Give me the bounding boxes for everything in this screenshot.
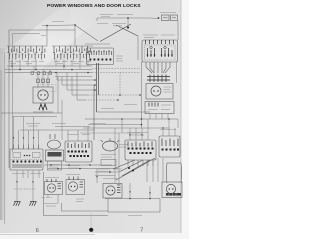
wire: drop x138 [137, 36, 139, 60]
harness box inner [13, 34, 41, 153]
label: S2 below [66, 166, 80, 169]
wire: horizontal into node A [42, 24, 75, 27]
rail junction boxes [31, 72, 52, 75]
wire: right drop from breaker [177, 21, 179, 41]
lock actuator A1 (x45-64) [48, 134, 61, 149]
connector row under K1 [147, 75, 170, 83]
wire: switch feed horizontal [20, 129, 95, 131]
ground G1 [13, 202, 20, 206]
K1 contact group 2 [162, 46, 173, 57]
wire: M2/M3 drops [48, 169, 97, 204]
harness box left outline [9, 30, 75, 168]
svg-text:6: 6 [36, 228, 39, 234]
wire: main feed horizontal [97, 17, 158, 20]
door lock switch S1 (left) [10, 149, 43, 170]
S2 top pins [68, 143, 89, 149]
dashed stub under M2 [42, 197, 53, 199]
wire: drops to bottom right [115, 128, 163, 183]
power window motor M4 (right) [146, 84, 173, 100]
K1 top pins [146, 40, 174, 44]
label: fuse text [100, 13, 176, 17]
wire: lower rails [44, 165, 119, 216]
diagonal bundle right [113, 158, 155, 180]
wire: node A drop [74, 25, 76, 47]
wire: drop x47 to comb [46, 26, 48, 47]
rail lower drops [34, 66, 50, 74]
label above H-right [101, 105, 137, 109]
page background [0, 0, 189, 239]
wire: horizontal H5 [88, 124, 142, 126]
window switch S4 (far right) [159, 136, 180, 157]
node A dot [74, 24, 76, 26]
dashed rails to right [92, 69, 140, 73]
S3 top pins [128, 142, 152, 147]
wire: right stub [177, 119, 179, 128]
S1 inner cells [13, 153, 21, 158]
inline connectors on M1 wires [37, 79, 50, 83]
binder hole dot [89, 228, 93, 232]
dashed hint box above motor [38, 85, 56, 92]
label: comb row text [8, 62, 91, 64]
node B junction X [100, 24, 138, 42]
wire: horizontal H3 right [85, 118, 178, 120]
left edge shadow [0, 70, 2, 220]
connector lower tick row C3 [9, 54, 45, 60]
stair wires W5 [57, 73, 95, 101]
wire: vert bundle x94 [93, 85, 95, 140]
wire: stub above binder hole [90, 213, 92, 227]
wire: mid horizontal H1 [1, 112, 62, 114]
wire: bottom-right open box [105, 199, 160, 213]
lock actuator A2 (far right) [166, 163, 182, 183]
connector lower tick row C4 [54, 54, 90, 60]
wire: mid horizontal H2 [13, 116, 58, 118]
rail junction dots [11, 65, 89, 73]
rail segment R3 [55, 76, 92, 78]
rail junction dots bottom [50, 164, 91, 169]
window switch S2 (center) [65, 141, 92, 162]
window switch S3 (right) [125, 140, 156, 160]
wire rail R2 [5, 72, 92, 74]
label: M4 text [164, 87, 172, 92]
label: wire gauge left [52, 21, 64, 23]
dashed branch wires [85, 73, 140, 101]
wire: J1 turn to right [97, 111, 151, 113]
wire rail R0 [7, 65, 92, 67]
label: above S2 [67, 134, 90, 136]
wire: drop x122 [121, 119, 123, 133]
wire rail R1 [5, 69, 92, 71]
wire: ground drops [16, 189, 18, 202]
bottom page edge [0, 233, 189, 239]
svg-text:7: 7 [140, 227, 143, 233]
door lock actuator A4 [145, 102, 174, 114]
right page edge [181, 0, 189, 239]
label: motors row [44, 175, 117, 207]
relay assembly K1 outline [142, 40, 178, 62]
wire: branch diag from node A [75, 25, 98, 41]
label: S1 below [12, 173, 41, 175]
K1 contact dots [147, 54, 173, 56]
S1 top pins [14, 145, 39, 150]
dark corner top-left [0, 0, 70, 60]
wire: J1 drop double [97, 63, 99, 112]
switch feed drops center [68, 127, 88, 142]
S1 hatch row [13, 164, 41, 168]
wire: K1 right drop [176, 62, 178, 83]
sheen band top-left [0, 0, 120, 105]
svg-text:POWER WINDOWS AND DOOR LOCKS: POWER WINDOWS AND DOOR LOCKS [47, 3, 141, 9]
K1 inner dashed box [145, 45, 176, 60]
relay module RM (oval, x100-122) [103, 141, 118, 151]
window motor M1 (left) [38, 70, 58, 114]
S1 dashed mid [12, 159, 42, 161]
label row above switches [26, 124, 176, 136]
label: small text mid-top [97, 24, 126, 26]
S1 contact dots row [13, 161, 42, 163]
A2 bottom hatch [166, 193, 181, 196]
wire: arrows into box [129, 183, 131, 199]
lock motor M2 [45, 182, 63, 195]
K1 bottom pins [146, 62, 170, 73]
S2 contact dots [68, 151, 90, 158]
S3 bottom pins [128, 160, 153, 166]
A4 bottom pins [150, 114, 168, 120]
left dark column [0, 48, 7, 220]
lock motor M3 [66, 180, 85, 195]
label under M3 [76, 199, 84, 202]
stair junction dots [94, 79, 96, 91]
wire: horizontal H4 [83, 127, 169, 129]
lock motor M5 (right-center) [103, 184, 122, 199]
wire: short rails left of M5 [95, 172, 119, 176]
ground G2 [29, 202, 36, 206]
wire arrows above grounds [16, 181, 18, 184]
node: feed dots [158, 17, 160, 19]
wire: drop from feed at 128 [127, 18, 129, 26]
connector comb row C2 (right group) [53, 46, 90, 53]
resistor element under M1 [39, 104, 47, 110]
circuit breaker CB1 [162, 15, 178, 21]
M5 side hatch [117, 185, 121, 193]
label: J1 right text [116, 56, 123, 61]
label under box [128, 215, 142, 217]
rail drops [12, 60, 88, 70]
left page border line [4, 52, 6, 224]
K1 contact group 1 [148, 46, 155, 57]
wire: horizontal H6 [80, 132, 142, 134]
switch feed drops left [14, 117, 39, 145]
S1 bottom pins [17, 170, 39, 189]
wire: drop x62 [61, 100, 63, 140]
wire: ground rail dashed [14, 188, 36, 190]
junction block J1 (mid) [85, 43, 110, 45]
fuse block comb rail [7, 45, 47, 47]
label: K1 top text [143, 35, 175, 38]
S3 feed drops [130, 119, 148, 140]
wire: K1 left long drop [141, 62, 143, 128]
connector comb row C1 (left group) [8, 46, 45, 53]
S3 contact dots [128, 148, 154, 155]
S4 feed drops [163, 119, 175, 136]
